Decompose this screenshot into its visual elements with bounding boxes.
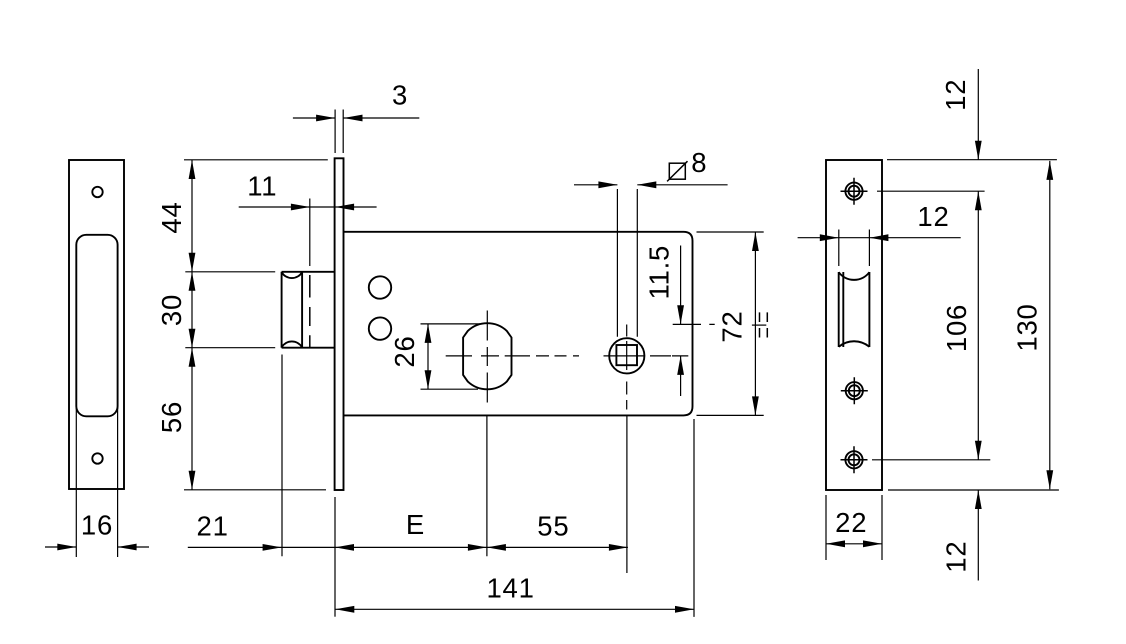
svg-text:16: 16 (81, 510, 113, 541)
svg-text:26: 26 (389, 335, 420, 367)
svg-text:130: 130 (1011, 303, 1042, 351)
svg-text:106: 106 (941, 304, 972, 352)
svg-text:8: 8 (691, 147, 707, 178)
svg-text:72: 72 (716, 310, 747, 342)
svg-text:12: 12 (940, 79, 971, 111)
svg-text:3: 3 (392, 80, 408, 111)
svg-text:21: 21 (196, 511, 228, 542)
svg-text:44: 44 (156, 201, 187, 233)
svg-text:11.5: 11.5 (644, 245, 675, 300)
svg-text:30: 30 (156, 294, 187, 326)
svg-text:56: 56 (156, 401, 187, 433)
svg-text:12: 12 (941, 540, 972, 572)
svg-text:141: 141 (486, 572, 534, 603)
svg-text:12: 12 (917, 201, 949, 232)
svg-text:11: 11 (247, 171, 277, 202)
svg-text:22: 22 (835, 507, 867, 538)
svg-text:E: E (406, 509, 425, 540)
svg-text:55: 55 (537, 510, 569, 541)
